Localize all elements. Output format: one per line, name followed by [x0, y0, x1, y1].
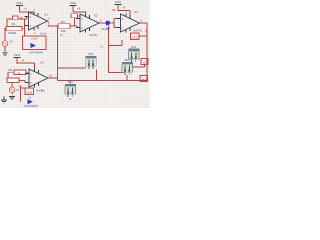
svg-text:IN2: IN2: [106, 27, 111, 31]
svg-text:R2: R2: [9, 68, 13, 72]
svg-text:U2: U2: [94, 14, 98, 18]
svg-text:+2: +2: [143, 60, 147, 64]
svg-text:VCC: VCC: [115, 0, 122, 4]
svg-text:RV1: RV1: [89, 53, 94, 56]
svg-text:10k: 10k: [17, 72, 22, 76]
svg-text:RV4: RV4: [68, 81, 73, 84]
svg-text:RV2: RV2: [131, 46, 136, 49]
svg-text:+9: +9: [21, 59, 25, 63]
svg-text:10k: 10k: [112, 8, 117, 12]
svg-text:U1:A: U1:A: [40, 31, 46, 35]
svg-text:V2: V2: [16, 88, 20, 92]
svg-text:UA741(IP): UA741(IP): [24, 104, 38, 108]
svg-text:+0.5: +0.5: [31, 36, 37, 40]
svg-text:UA741: UA741: [133, 29, 142, 33]
svg-text:U3: U3: [134, 10, 138, 14]
svg-text:+9: +9: [24, 7, 28, 11]
svg-text:UA741(IP): UA741(IP): [29, 51, 43, 55]
svg-text:V1: V1: [10, 40, 14, 44]
svg-text:+1.3: +1.3: [132, 35, 138, 39]
svg-text:R1: R1: [12, 22, 16, 26]
svg-text:+4.5: +4.5: [141, 77, 147, 81]
svg-text:+9: +9: [122, 6, 126, 10]
svg-text:10k: 10k: [61, 29, 66, 33]
svg-text:UA741: UA741: [89, 33, 98, 37]
svg-text:VCC: VCC: [70, 1, 77, 5]
svg-text:RV3: RV3: [125, 59, 130, 62]
svg-text:VCC: VCC: [16, 1, 23, 5]
svg-text:U4: U4: [40, 60, 44, 64]
svg-text:VCC: VCC: [14, 53, 21, 57]
svg-text:VSINE: VSINE: [8, 31, 16, 35]
svg-text:U1: U1: [44, 12, 48, 16]
svg-text:+9: +9: [77, 7, 81, 11]
svg-text:+0.4: +0.4: [26, 90, 32, 94]
